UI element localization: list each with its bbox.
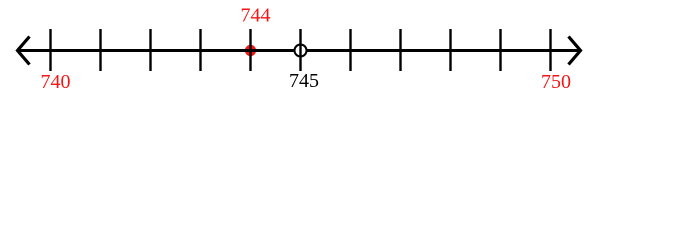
svg-text:744: 744 <box>241 5 271 27</box>
right arrowhead <box>569 37 581 65</box>
tick 747 <box>399 29 401 71</box>
number line <box>17 49 581 52</box>
svg-text:750: 750 <box>541 71 571 93</box>
tick 748 <box>449 29 451 71</box>
tick 749 <box>499 29 501 71</box>
svg-text:740: 740 <box>41 71 71 93</box>
tick 741 <box>99 29 101 71</box>
svg-text:745: 745 <box>289 70 319 92</box>
point marker 744 (red dot) <box>245 45 256 56</box>
left arrowhead <box>18 37 30 65</box>
tick 746 <box>349 29 351 71</box>
tick 750 <box>549 29 551 71</box>
tick 740 <box>49 29 51 71</box>
open circle 745 <box>295 45 307 57</box>
tick 743 <box>199 29 201 71</box>
tick 742 <box>149 29 151 71</box>
tick 745 <box>299 29 301 71</box>
tick 744 <box>249 29 251 71</box>
